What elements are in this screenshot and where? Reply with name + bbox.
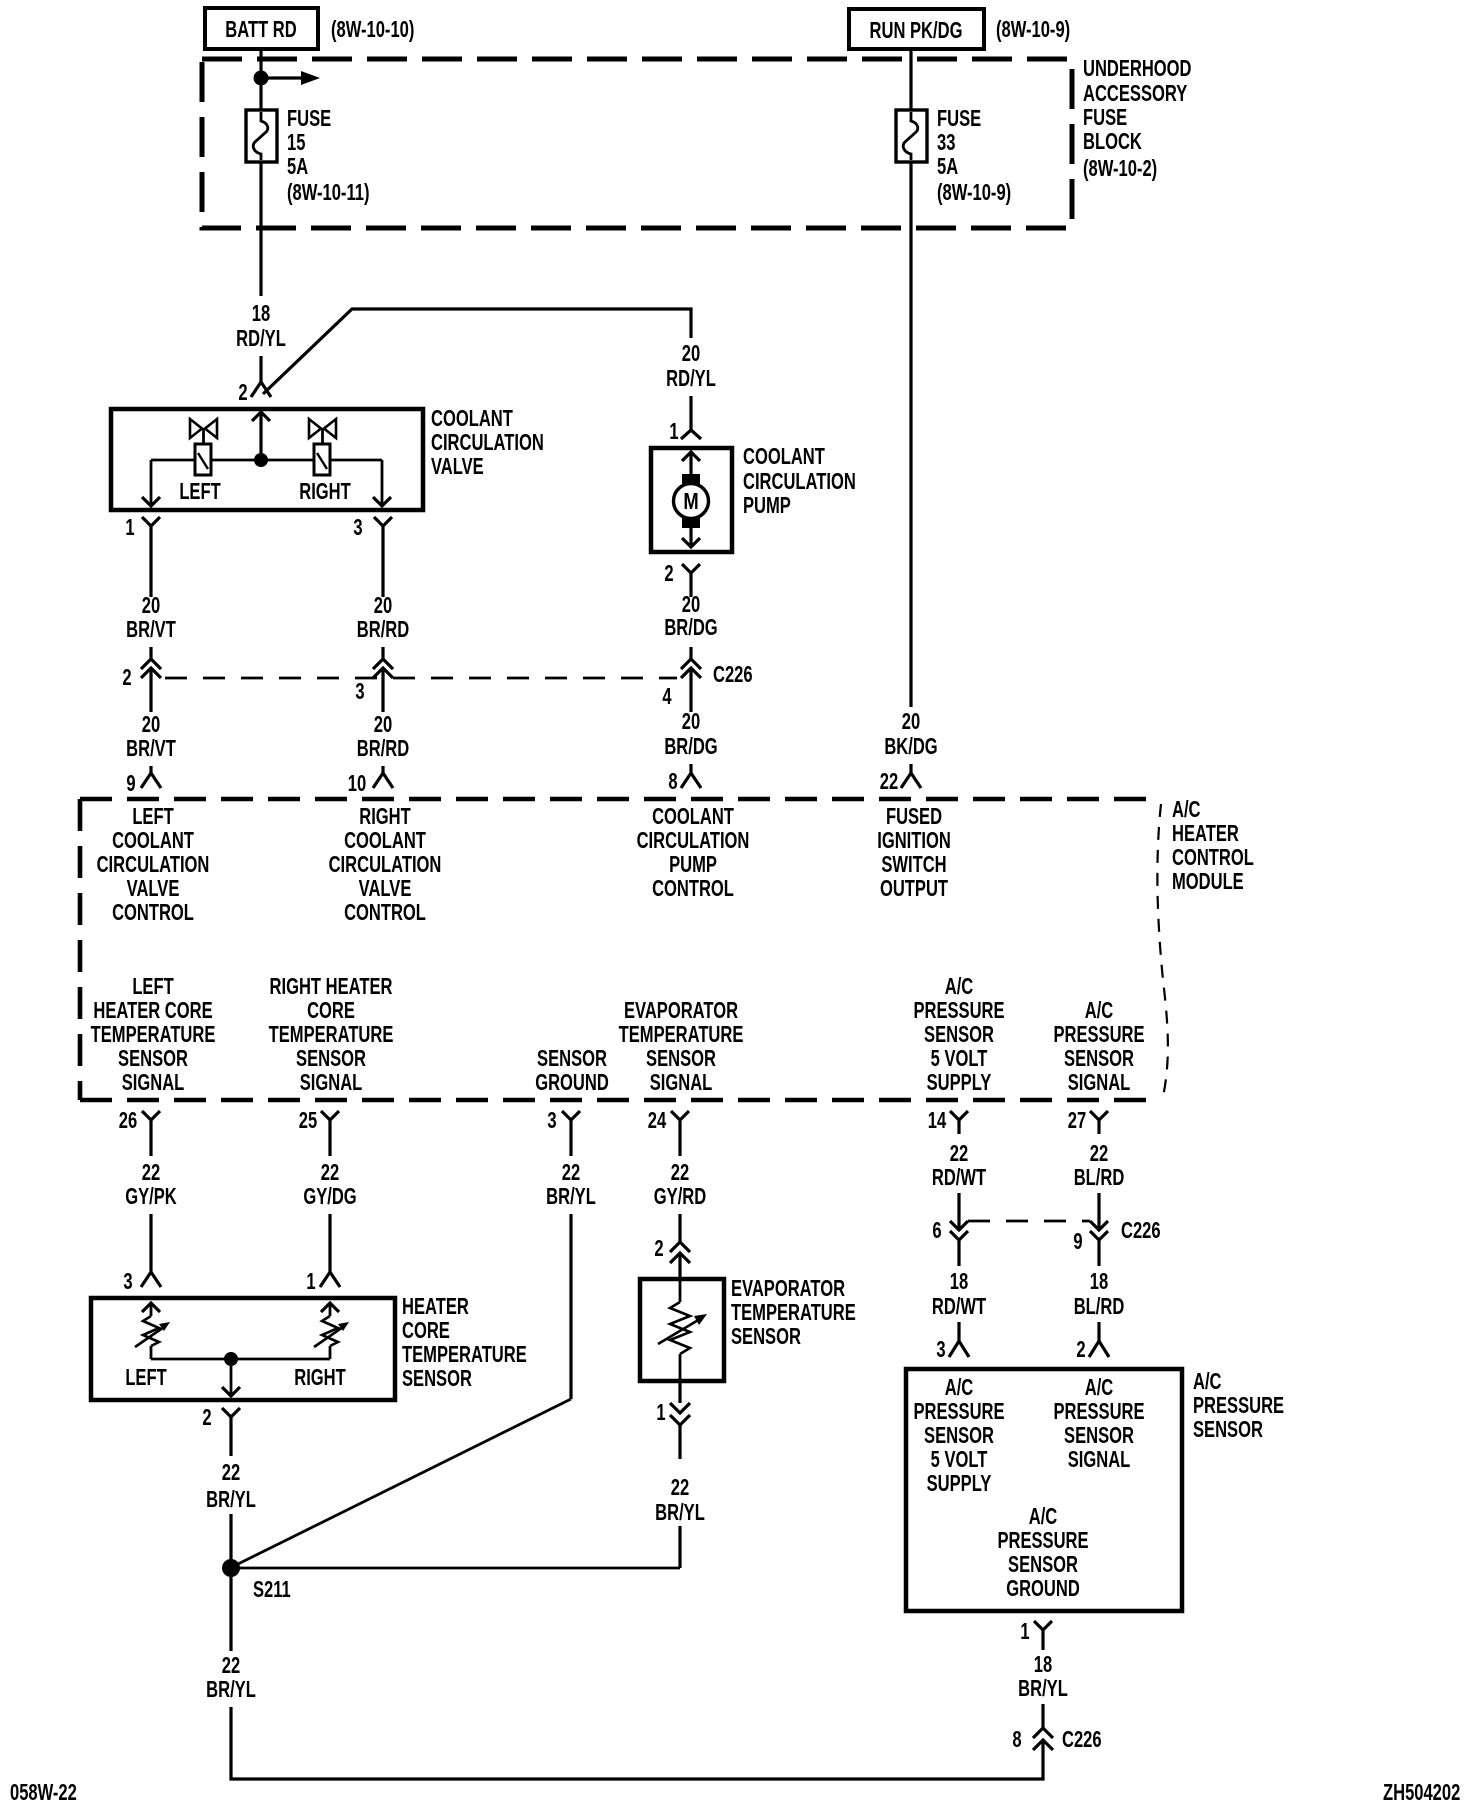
svg-text:5 VOLT: 5 VOLT (931, 1447, 988, 1472)
svg-text:20: 20 (374, 593, 392, 618)
wire valve pin1 down (20 BR/VT) (149, 545, 152, 597)
svg-text:CIRCULATION: CIRCULATION (637, 828, 750, 853)
svg-text:BR/RD: BR/RD (357, 736, 409, 761)
fuse 15 (246, 110, 277, 162)
svg-text:BL/RD: BL/RD (1074, 1165, 1125, 1190)
fuse 33 value labels (937, 106, 1011, 205)
svg-text:058W-22: 058W-22 (10, 1780, 77, 1805)
svg-text:PRESSURE: PRESSURE (913, 1399, 1004, 1424)
svg-text:BLOCK: BLOCK (1083, 129, 1142, 154)
wire sensor ground vertical (569, 1214, 572, 1399)
wire to module pin 8 (689, 764, 692, 773)
coolant circulation pump box (651, 448, 732, 552)
svg-text:22: 22 (142, 1160, 160, 1185)
wire module pin26 to heater core pin3 (149, 1214, 152, 1272)
svg-text:PRESSURE: PRESSURE (1193, 1393, 1284, 1418)
svg-text:M: M (683, 489, 698, 514)
svg-text:2: 2 (238, 380, 247, 405)
wire label 20 BR/RD (module side) (357, 712, 409, 761)
module label FUSED IGNITION SWITCH OUTPUT (877, 804, 951, 901)
svg-text:BR/DG: BR/DG (664, 615, 717, 640)
svg-text:PRESSURE: PRESSURE (913, 998, 1004, 1023)
wire label 20 RD/YL (666, 341, 716, 391)
svg-text:SENSOR: SENSOR (924, 1022, 994, 1047)
svg-text:SWITCH: SWITCH (881, 852, 946, 877)
module label LEFT COOLANT CIRCULATION VALVE CONTROL (97, 804, 210, 925)
svg-text:RD/YL: RD/YL (236, 326, 286, 351)
wire bottom run to pressure sensor ground (231, 1707, 1043, 1779)
evaporator sensor pin 1 connector (670, 1381, 690, 1459)
connector C226 dashed link line (165, 677, 677, 680)
svg-text:C226: C226 (1121, 1218, 1161, 1243)
svg-text:SENSOR: SENSOR (731, 1324, 801, 1349)
svg-text:LEFT: LEFT (132, 804, 174, 829)
motor M1 (674, 452, 709, 547)
right heater core thermistor (314, 1303, 349, 1359)
svg-text:BR/YL: BR/YL (206, 1677, 256, 1702)
sensor label A/C PRESSURE SENSOR 5 VOLT SUPPLY (913, 1375, 1004, 1496)
wire label 22 GY/PK (125, 1160, 177, 1209)
svg-text:TEMPERATURE: TEMPERATURE (731, 1300, 856, 1325)
module pin 27 connector (1090, 1111, 1108, 1134)
wire RUN PK/DG to fuse 33 (909, 49, 912, 110)
svg-text:IGNITION: IGNITION (877, 828, 951, 853)
svg-text:BATT RD: BATT RD (225, 17, 296, 42)
module pin 3 connector (562, 1111, 580, 1156)
svg-text:SENSOR: SENSOR (1008, 1552, 1078, 1577)
module pin 10 connector (373, 773, 393, 788)
svg-text:SIGNAL: SIGNAL (1068, 1447, 1131, 1472)
svg-text:VALVE: VALVE (359, 876, 412, 901)
wire module pin25 to heater core pin1 (328, 1214, 331, 1272)
svg-text:2: 2 (664, 561, 673, 586)
wire branch valve pin2 to pump (diagonal + horizontal) (263, 309, 691, 394)
module pin 24 connector (671, 1111, 689, 1156)
wire label 18 BR/YL (1018, 1652, 1068, 1701)
wire pump to C226 pin 4 (689, 647, 692, 659)
connector C226 pin 4 (681, 659, 701, 712)
svg-text:18: 18 (252, 301, 270, 326)
svg-text:3: 3 (547, 1108, 556, 1133)
module label COOLANT CIRCULATION PUMP CONTROL (637, 804, 750, 901)
connector C226 pin 2 (141, 659, 161, 712)
svg-text:A/C: A/C (945, 1375, 974, 1400)
svg-text:CONTROL: CONTROL (344, 900, 426, 925)
wire label 20 BR/DG (664, 592, 717, 640)
svg-text:9: 9 (126, 771, 135, 796)
svg-text:VALVE: VALVE (127, 876, 180, 901)
svg-text:4: 4 (662, 684, 672, 709)
svg-text:22: 22 (222, 1460, 240, 1485)
fuse 15 value labels (287, 106, 369, 205)
svg-text:SENSOR: SENSOR (924, 1423, 994, 1448)
svg-text:LEFT: LEFT (179, 479, 221, 504)
svg-text:SENSOR: SENSOR (296, 1046, 366, 1071)
svg-text:8: 8 (1012, 1727, 1021, 1752)
underhood accessory fuse block dashed box (202, 59, 1072, 228)
label A/C HEATER CONTROL MODULE (1172, 797, 1254, 894)
svg-text:CIRCULATION: CIRCULATION (97, 852, 210, 877)
svg-text:HEATER CORE: HEATER CORE (93, 998, 212, 1023)
wire fuse 15 to valve pin 2 (259, 162, 262, 296)
A/C heater control module dashed box (80, 799, 1160, 1100)
module label EVAPORATOR TEMPERATURE SENSOR SIGNAL (619, 998, 744, 1095)
svg-text:5 VOLT: 5 VOLT (931, 1046, 988, 1071)
svg-text:GY/DG: GY/DG (303, 1184, 356, 1209)
wire label 22 BR/YL (below S211) (206, 1653, 256, 1702)
wire label 18 RD/YL (236, 301, 286, 351)
svg-text:COOLANT: COOLANT (652, 804, 734, 829)
svg-text:5A: 5A (287, 154, 308, 179)
svg-text:(8W-10-2): (8W-10-2) (1083, 156, 1157, 181)
wire label 22 GY/DG (303, 1160, 356, 1209)
svg-text:UNDERHOOD: UNDERHOOD (1083, 56, 1192, 81)
connector C226 pin 6 (950, 1221, 968, 1266)
pressure sensor pin 2 connector (1089, 1341, 1109, 1357)
svg-text:RIGHT: RIGHT (299, 479, 351, 504)
svg-text:SIGNAL: SIGNAL (1068, 1070, 1131, 1095)
connector C226 pin 3 (373, 659, 393, 712)
svg-text:FUSE: FUSE (937, 106, 981, 131)
svg-text:PRESSURE: PRESSURE (1053, 1022, 1144, 1047)
svg-text:5A: 5A (937, 154, 958, 179)
svg-text:ACCESSORY: ACCESSORY (1083, 81, 1188, 106)
svg-text:GROUND: GROUND (535, 1070, 609, 1095)
svg-text:SENSOR: SENSOR (1064, 1423, 1134, 1448)
svg-text:RIGHT: RIGHT (294, 1365, 346, 1390)
wire label 20 BR/VT (module side) (126, 712, 176, 761)
wire RUN PK/DG to module (20 BK/DG) (909, 162, 912, 707)
svg-text:8: 8 (668, 769, 677, 794)
svg-text:A/C: A/C (1085, 998, 1114, 1023)
svg-text:1: 1 (306, 1269, 315, 1294)
svg-text:TEMPERATURE: TEMPERATURE (402, 1342, 527, 1367)
svg-text:22: 22 (671, 1475, 689, 1500)
svg-text:1: 1 (656, 1400, 665, 1425)
svg-text:PRESSURE: PRESSURE (997, 1528, 1088, 1553)
wire module pin24 to evaporator sensor (678, 1214, 681, 1242)
svg-text:SENSOR: SENSOR (646, 1046, 716, 1071)
svg-text:ZH504202: ZH504202 (1383, 1780, 1460, 1805)
wire to module pin 9 (149, 766, 152, 773)
valve internal junction node (254, 453, 268, 467)
svg-text:SIGNAL: SIGNAL (300, 1070, 363, 1095)
svg-text:FUSED: FUSED (886, 804, 942, 829)
svg-text:2: 2 (1076, 1337, 1085, 1362)
svg-text:SUPPLY: SUPPLY (927, 1070, 992, 1095)
heater core pin 2 connector (222, 1408, 240, 1434)
svg-text:BR/YL: BR/YL (655, 1500, 705, 1525)
svg-text:EVAPORATOR: EVAPORATOR (624, 998, 738, 1023)
svg-text:OUTPUT: OUTPUT (880, 876, 949, 901)
svg-text:COOLANT: COOLANT (431, 406, 513, 431)
wire sensor ground diagonal to S211 (234, 1399, 571, 1566)
svg-text:1: 1 (125, 515, 134, 540)
connector pin 3 of valve (374, 517, 392, 545)
svg-text:20: 20 (142, 593, 160, 618)
svg-text:A/C: A/C (1193, 1369, 1222, 1394)
svg-text:BK/DG: BK/DG (884, 734, 937, 759)
wire label 20 BK/DG (884, 709, 937, 759)
svg-text:(8W-10-9): (8W-10-9) (996, 17, 1070, 42)
svg-text:2: 2 (202, 1405, 211, 1430)
svg-text:20: 20 (682, 709, 700, 734)
junction node on battery feed (254, 71, 269, 86)
svg-text:2: 2 (654, 1236, 663, 1261)
wire segment to C226 pin 3 (381, 647, 384, 659)
module breakout wavy edge (1157, 804, 1168, 1097)
svg-text:SENSOR: SENSOR (118, 1046, 188, 1071)
wire module pin27 to C226 pin 9 (1097, 1193, 1100, 1230)
wire to pump pin 1 (689, 396, 692, 430)
label HEATER CORE TEMPERATURE SENSOR (402, 1294, 527, 1391)
svg-text:20: 20 (142, 712, 160, 737)
wire label 22 BR/YL (206, 1460, 256, 1512)
wire to module pin 22 (909, 764, 912, 773)
svg-text:BR/YL: BR/YL (546, 1184, 596, 1209)
heater core pin 1 connector (320, 1272, 340, 1287)
evaporator temperature sensor box (640, 1279, 724, 1381)
module label A/C PRESSURE SENSOR SIGNAL (1053, 998, 1144, 1095)
fuse 33 (896, 110, 927, 162)
wire to valve pin 2 (259, 356, 262, 382)
svg-text:CONTROL: CONTROL (652, 876, 734, 901)
connector C226 pin 9 (1090, 1221, 1108, 1266)
valve internal feed wire with up arrow (252, 412, 270, 460)
wire label 22 BL/RD (1074, 1141, 1125, 1190)
svg-text:RD/WT: RD/WT (932, 1294, 987, 1319)
svg-text:TEMPERATURE: TEMPERATURE (91, 1022, 216, 1047)
A/C pressure sensor box (906, 1369, 1182, 1611)
svg-text:22: 22 (562, 1160, 580, 1185)
splice node S211 (222, 1559, 240, 1577)
svg-text:(8W-10-11): (8W-10-11) (287, 180, 369, 205)
svg-text:RD/WT: RD/WT (932, 1165, 987, 1190)
wire pump pin2 down (689, 589, 692, 597)
svg-text:10: 10 (348, 771, 366, 796)
svg-text:BR/VT: BR/VT (126, 736, 176, 761)
heater core output with down arrow (222, 1359, 240, 1396)
svg-text:SIGNAL: SIGNAL (650, 1070, 713, 1095)
svg-text:CORE: CORE (307, 998, 355, 1023)
svg-text:A/C: A/C (945, 974, 974, 999)
svg-text:26: 26 (119, 1108, 137, 1133)
left heater core thermistor (135, 1303, 170, 1359)
svg-text:RIGHT HEATER: RIGHT HEATER (270, 974, 393, 999)
svg-text:COOLANT: COOLANT (112, 828, 194, 853)
svg-text:SENSOR: SENSOR (402, 1366, 472, 1391)
svg-text:3: 3 (353, 515, 362, 540)
svg-text:COOLANT: COOLANT (743, 444, 825, 469)
valve internal bus wire (151, 459, 382, 462)
valve right branch with down arrow (373, 460, 391, 506)
svg-text:HEATER: HEATER (402, 1294, 469, 1319)
svg-text:SENSOR: SENSOR (537, 1046, 607, 1071)
svg-text:SIGNAL: SIGNAL (122, 1070, 185, 1095)
wire to module pin 10 (381, 766, 384, 773)
svg-text:FUSE: FUSE (287, 106, 331, 131)
svg-text:9: 9 (1073, 1229, 1082, 1254)
node label BATT RD (205, 8, 318, 49)
svg-text:PUMP: PUMP (669, 852, 717, 877)
evaporator sensor pin 2 connector (670, 1242, 690, 1281)
svg-text:22: 22 (880, 769, 898, 794)
svg-text:2: 2 (122, 665, 131, 690)
svg-text:CIRCULATION: CIRCULATION (743, 469, 856, 494)
sensor label A/C PRESSURE SENSOR GROUND (997, 1504, 1088, 1601)
svg-text:22: 22 (950, 1141, 968, 1166)
module pin 9 connector (141, 773, 161, 788)
wire module pin14 to C226 pin 6 (957, 1193, 960, 1230)
svg-text:LEFT: LEFT (125, 1365, 167, 1390)
svg-text:33: 33 (937, 130, 955, 155)
svg-text:MODULE: MODULE (1172, 869, 1244, 894)
sensor label A/C PRESSURE SENSOR SIGNAL (1053, 1375, 1144, 1472)
svg-text:C226: C226 (713, 662, 753, 687)
svg-text:FUSE: FUSE (1083, 105, 1127, 130)
svg-text:6: 6 (932, 1218, 941, 1243)
connector C226 dashed link line (right) (968, 1220, 1090, 1223)
svg-text:18: 18 (1034, 1652, 1052, 1677)
svg-text:SUPPLY: SUPPLY (927, 1471, 992, 1496)
wire S211 to evaporator sensor return (231, 1567, 680, 1570)
arrow tap pointing right (261, 71, 320, 85)
svg-text:1: 1 (1020, 1619, 1029, 1644)
module pin 22 connector (901, 773, 921, 788)
module label LEFT HEATER CORE TEMPERATURE SENSOR SIGNAL (91, 974, 216, 1095)
svg-text:CONTROL: CONTROL (112, 900, 194, 925)
heater core internal node (224, 1352, 238, 1366)
wire label 18 RD/WT (932, 1269, 987, 1319)
svg-text:LEFT: LEFT (132, 974, 174, 999)
module label A/C PRESSURE SENSOR 5 VOLT SUPPLY (913, 974, 1004, 1095)
wire label 20 BR/DG (module side) (664, 709, 717, 759)
svg-text:25: 25 (299, 1108, 317, 1133)
connector pin 1 of valve (142, 517, 160, 545)
svg-text:GY/RD: GY/RD (654, 1184, 706, 1209)
svg-text:3: 3 (355, 679, 364, 704)
svg-text:(8W-10-9): (8W-10-9) (937, 180, 1011, 205)
wire S211 down (229, 1577, 232, 1651)
wire label 20 BR/VT (126, 593, 176, 642)
connector C226 pin 8 (1033, 1728, 1053, 1750)
connector pin 2 of valve (251, 382, 271, 397)
svg-text:GROUND: GROUND (1006, 1576, 1080, 1601)
wire C226 pin6 to pressure sensor pin 3 (957, 1322, 960, 1341)
svg-text:22: 22 (671, 1160, 689, 1185)
left valve symbol (190, 419, 217, 475)
wire pressure ground to C226 pin 8 (1041, 1704, 1044, 1728)
svg-text:A/C: A/C (1085, 1375, 1114, 1400)
label COOLANT CIRCULATION VALVE (431, 406, 544, 479)
evaporator thermistor (658, 1281, 707, 1379)
svg-text:14: 14 (928, 1108, 947, 1133)
svg-text:CONTROL: CONTROL (1172, 845, 1254, 870)
svg-text:22: 22 (222, 1653, 240, 1678)
svg-text:RIGHT: RIGHT (359, 804, 411, 829)
wire valve pin3 down (20 BR/RD) (381, 545, 384, 597)
svg-text:VALVE: VALVE (431, 454, 484, 479)
svg-text:(8W-10-10): (8W-10-10) (331, 17, 414, 42)
svg-text:BR/DG: BR/DG (664, 734, 717, 759)
wire label 20 BR/RD (357, 593, 409, 642)
module pin 8 connector (681, 773, 701, 788)
svg-text:27: 27 (1068, 1108, 1086, 1133)
wire C226 pin9 to pressure sensor pin 2 (1097, 1322, 1100, 1341)
coolant circulation valve box (111, 409, 423, 510)
svg-text:20: 20 (682, 592, 700, 617)
module pin 14 connector (950, 1111, 968, 1134)
svg-text:20: 20 (682, 341, 700, 366)
svg-text:RD/YL: RD/YL (666, 366, 716, 391)
svg-text:EVAPORATOR: EVAPORATOR (731, 1276, 845, 1301)
wire heater core pin2 down (229, 1434, 232, 1456)
svg-text:1: 1 (669, 419, 678, 444)
svg-text:BL/RD: BL/RD (1074, 1294, 1125, 1319)
svg-text:BR/RD: BR/RD (357, 617, 409, 642)
module label RIGHT HEATER CORE TEMPERATURE SENSOR SIGNAL (269, 974, 394, 1095)
module pin 25 connector (321, 1111, 339, 1156)
svg-text:3: 3 (123, 1269, 132, 1294)
wire label 22 RD/WT (932, 1141, 987, 1190)
pressure sensor pin 1 connector (1034, 1621, 1052, 1650)
svg-text:CORE: CORE (402, 1318, 450, 1343)
svg-text:BR/YL: BR/YL (1018, 1676, 1068, 1701)
svg-text:TEMPERATURE: TEMPERATURE (269, 1022, 394, 1047)
module pin 26 connector (142, 1111, 160, 1156)
label UNDERHOOD ACCESSORY FUSE BLOCK (8W-10-2) (1083, 56, 1192, 181)
svg-text:BR/VT: BR/VT (126, 617, 176, 642)
valve left branch with down arrow (142, 460, 160, 506)
svg-text:18: 18 (1090, 1269, 1108, 1294)
label A/C PRESSURE SENSOR (outside) (1193, 1369, 1284, 1442)
connector pin 2 of pump (682, 564, 700, 589)
svg-text:S211: S211 (253, 1577, 291, 1602)
svg-text:20: 20 (902, 709, 920, 734)
svg-text:3: 3 (936, 1337, 945, 1362)
svg-text:22: 22 (321, 1160, 339, 1185)
svg-text:SENSOR: SENSOR (1193, 1417, 1263, 1442)
svg-text:HEATER: HEATER (1172, 821, 1239, 846)
wire label 18 BL/RD (1074, 1269, 1125, 1319)
node label RUN PK/DG (849, 9, 984, 49)
wire segment to C226 pin 2 (149, 647, 152, 659)
wire label 22 BR/YL (sensor ground) (546, 1160, 596, 1209)
svg-text:24: 24 (648, 1108, 667, 1133)
svg-text:15: 15 (287, 130, 305, 155)
svg-text:22: 22 (1090, 1141, 1108, 1166)
svg-text:CIRCULATION: CIRCULATION (329, 852, 442, 877)
label COOLANT CIRCULATION PUMP (743, 444, 856, 518)
wire BATT RD to fuse 15 (259, 49, 262, 110)
svg-text:TEMPERATURE: TEMPERATURE (619, 1022, 744, 1047)
svg-text:RUN PK/DG: RUN PK/DG (870, 18, 963, 43)
svg-text:GY/PK: GY/PK (125, 1184, 177, 1209)
svg-text:SENSOR: SENSOR (1064, 1046, 1134, 1071)
svg-text:C226: C226 (1062, 1727, 1102, 1752)
svg-text:CIRCULATION: CIRCULATION (431, 430, 544, 455)
wire label 22 GY/RD (654, 1160, 706, 1209)
pressure sensor pin 3 connector (949, 1341, 969, 1357)
svg-text:BR/YL: BR/YL (206, 1487, 256, 1512)
heater core internal bus (151, 1358, 330, 1361)
module label RIGHT COOLANT CIRCULATION VALVE CONTROL (329, 804, 442, 925)
svg-text:PRESSURE: PRESSURE (1053, 1399, 1144, 1424)
right valve symbol (309, 419, 336, 475)
svg-text:18: 18 (950, 1269, 968, 1294)
heater core pin 3 connector (141, 1272, 161, 1287)
svg-text:20: 20 (374, 712, 392, 737)
